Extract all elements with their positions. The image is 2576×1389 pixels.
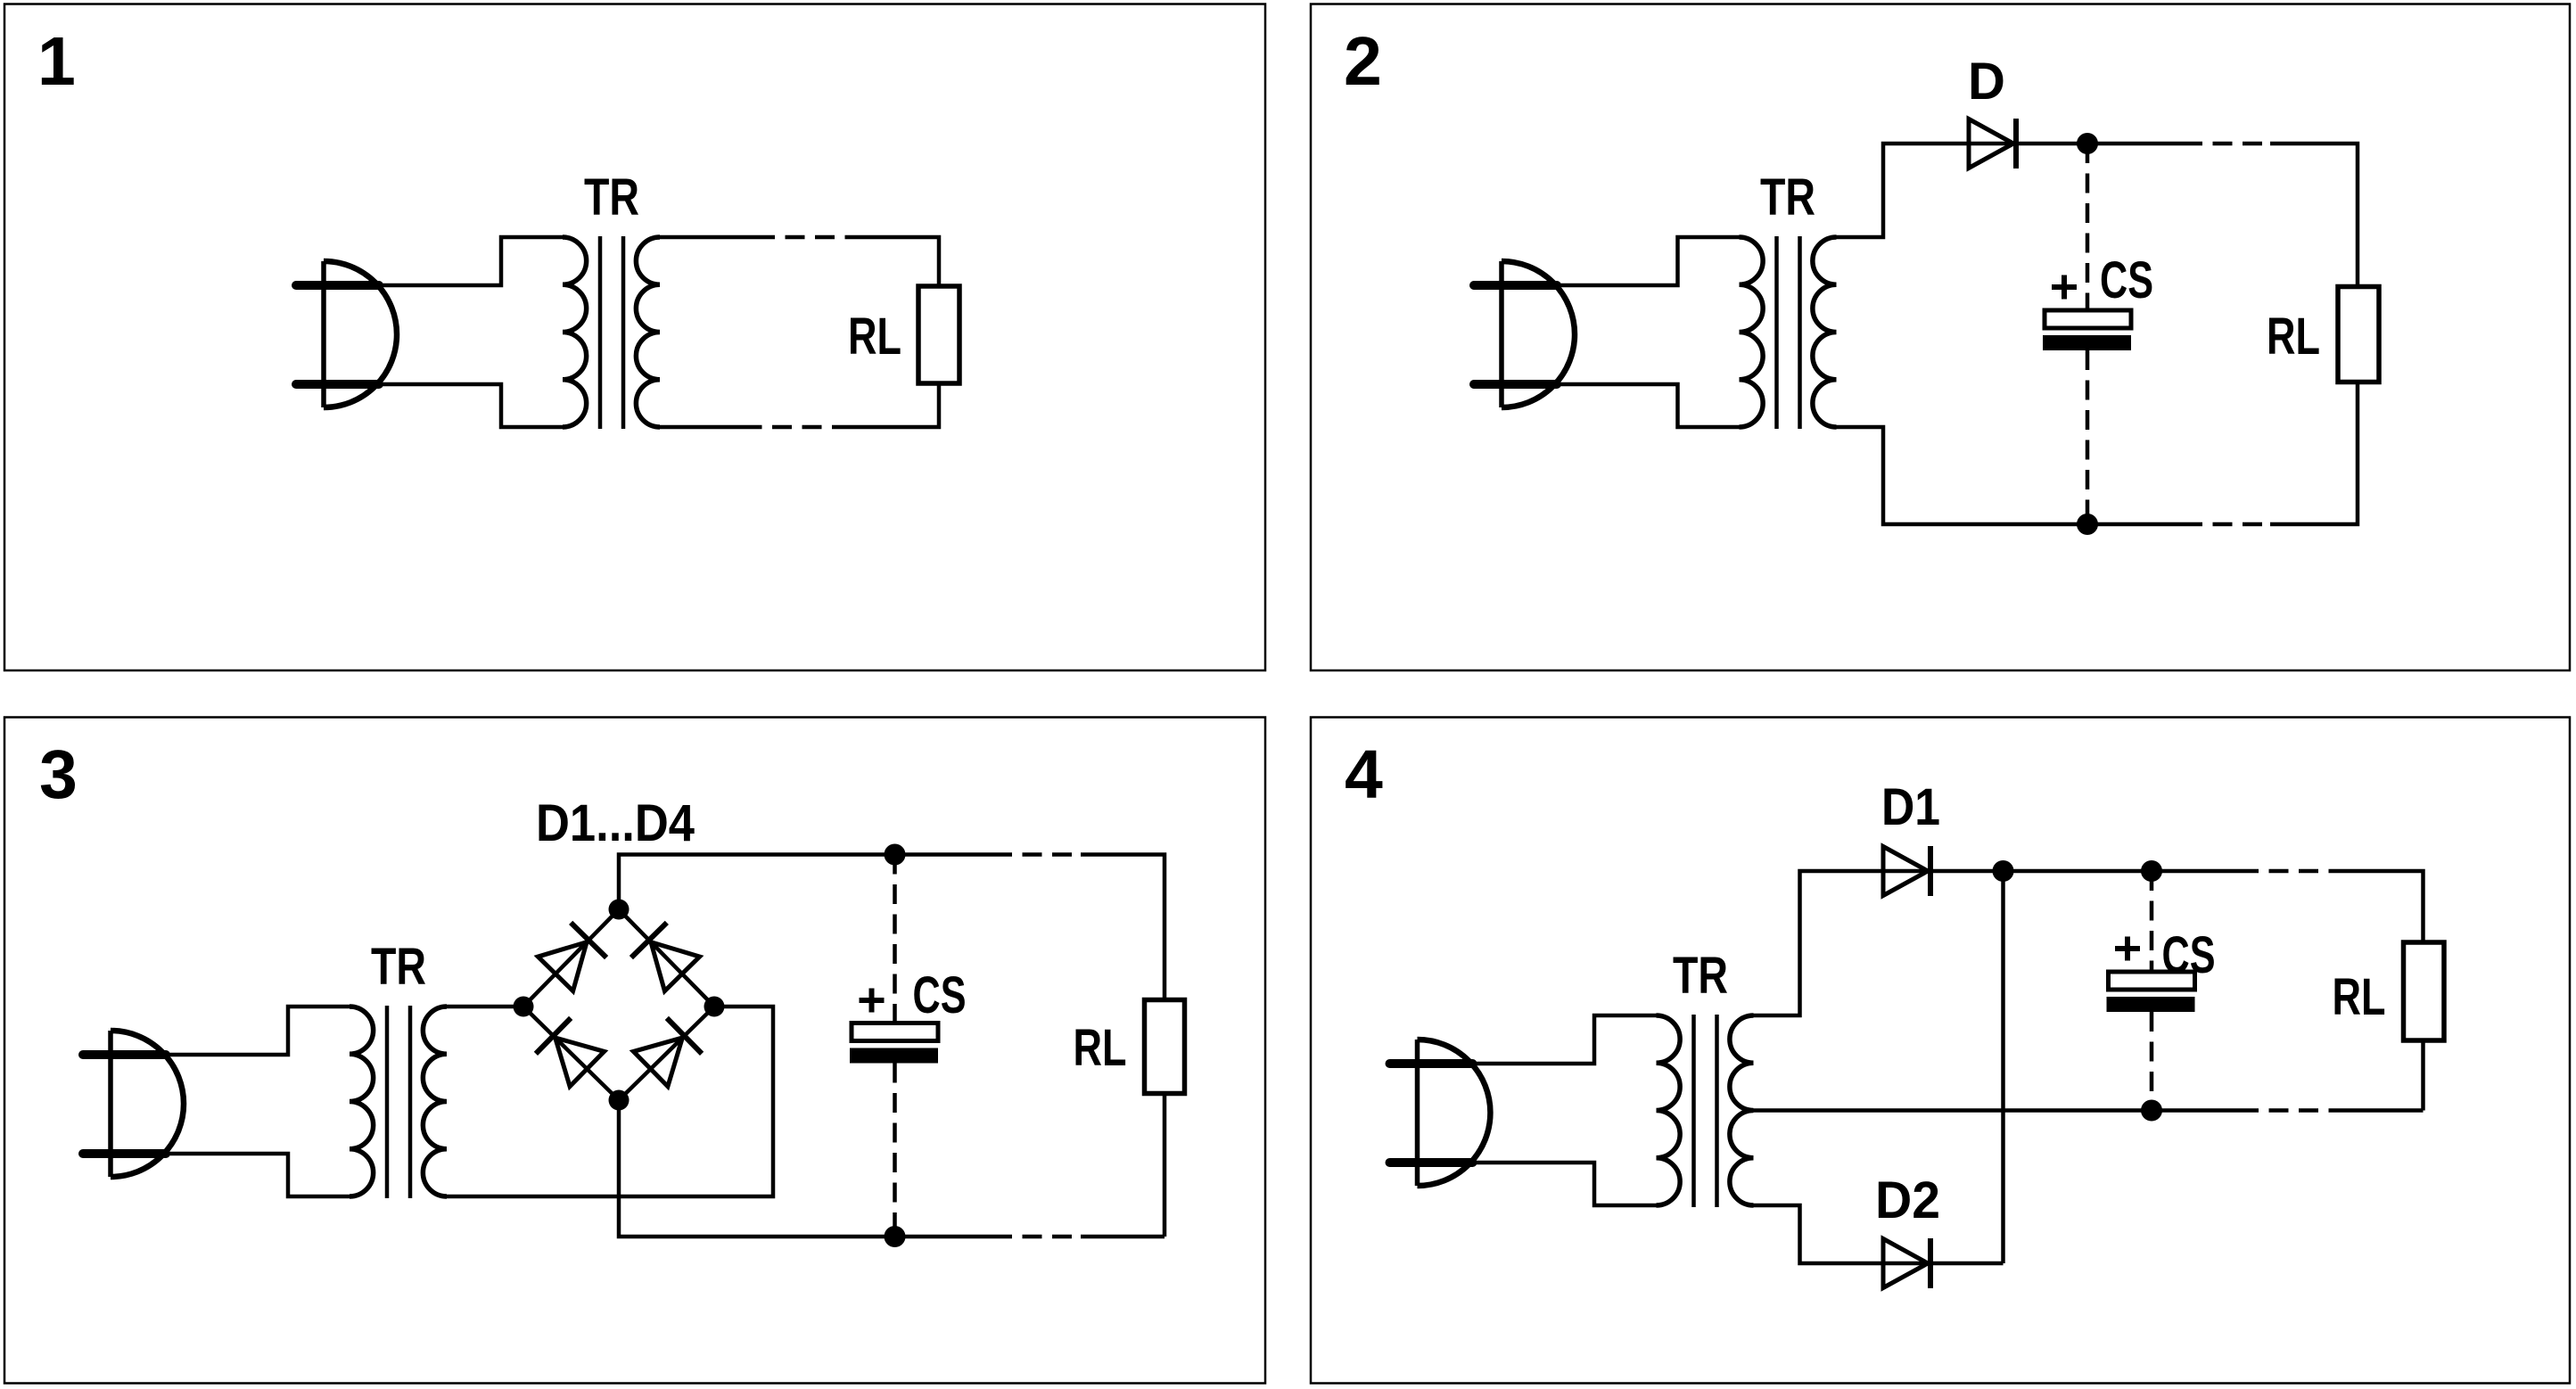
svg-text:RL: RL [2267,308,2320,366]
bridge lower edges wire [523,1007,714,1100]
bridge node dot right [704,997,725,1017]
svg-text:TR: TR [371,938,426,996]
wire diodes junction vertical [2001,871,2005,1263]
plug P1 mains plug body [324,261,397,407]
transformer TR primary winding [563,237,587,427]
node dot minus rail panel 3 [885,1226,906,1247]
svg-text:D: D [1968,53,2005,111]
svg-text:4: 4 [1345,736,1383,813]
wire secondary top solid [660,235,755,240]
wire bottom to resistor RL panel 2 [2270,382,2358,525]
panel 3 frame [4,718,1265,1384]
capacitor CS top plate panel 4 [2109,972,2195,990]
bridge node dot left [514,997,534,1017]
svg-text:2: 2 [1344,23,1382,100]
svg-text:3: 3 [39,736,78,813]
wire resistor RL bottom panel 3 [1163,1094,1167,1237]
svg-text:CS: CS [913,966,967,1024]
transformer TR primary winding panel 2 [1740,237,1764,427]
resistor RL panel 4 [2404,942,2445,1040]
transformer TR core panel 2 [1777,236,1800,429]
plug P1 prong top [296,281,379,290]
svg-text:1: 1 [37,23,76,100]
transformer TR secondary winding panel 4 [1730,1015,1754,1205]
wire secondary bottom rail panel 2 [1837,427,2184,524]
transformer TR primary winding panel 3 [350,1007,374,1196]
svg-text:CS: CS [2100,251,2153,309]
wire bridge bottom node to minus rail [619,1100,992,1237]
node dot top panel 2 [2077,133,2098,154]
bridge node dot bottom [609,1090,630,1111]
wire secondary bottom dashed [755,425,852,430]
wire secondary top dashed [755,235,852,240]
wire plug to TR primary bottom [378,384,563,427]
wire bridge right node to secondary bottom [447,1007,773,1196]
wire secondary bottom to diode D2 row [1754,1205,2004,1263]
transformer TR core [600,236,623,429]
wire center tap rail panel 4 [1754,1108,2240,1113]
wire secondary top to diode D row [1837,144,2184,237]
transformer TR core panel 3 [387,1006,410,1198]
wire plug to TR primary top panel 3 [165,1007,350,1055]
diode D [1969,119,2016,168]
svg-text:D2: D2 [1875,1171,1940,1229]
wire secondary bottom solid [660,425,755,430]
capacitor CS bottom plate panel 3 [850,1048,938,1064]
transformer TR secondary winding panel 3 [423,1007,447,1196]
panel 2 frame [1311,4,2570,671]
wire center rail dashed panel 4 [2239,1108,2331,1113]
wire top to resistor RL panel 4 [2331,871,2424,942]
svg-text:TR: TR [1673,947,1728,1005]
wire plus rail dashed panel 3 [992,852,1081,857]
svg-text:D1: D1 [1881,778,1940,836]
capacitor CS top dashed lead panel 4 [2150,871,2154,972]
wire plug to TR primary bottom panel 3 [165,1154,350,1196]
capacitor CS bottom dashed lead panel 4 [2150,1012,2154,1111]
plug P3 prong top [83,1050,166,1059]
wire top dashed panel 4 [2239,869,2331,874]
bridge diode D1 upper left [538,923,606,991]
capacitor CS top dashed lead panel 2 [2086,144,2090,310]
panel 1 frame [4,4,1265,671]
plug P2 prong top [1474,281,1557,290]
bridge upper edges wire [523,909,714,1007]
plug P2 prong bottom [1474,380,1557,389]
wire secondary top to bridge left node [447,1005,523,1009]
node dot CS top panel 4 [2141,860,2162,882]
wire plus rail to resistor RL panel 3 [1081,855,1165,1000]
wire resistor RL bottom panel 4 [2421,1040,2425,1111]
bridge diode D4 lower right [633,1018,702,1087]
panel 4 frame [1311,718,2570,1384]
capacitor CS plus sign panel 2 [2052,275,2077,300]
capacitor CS plus sign panel 4 [2115,937,2140,961]
wire plug to TR primary bottom panel 2 [1556,384,1740,427]
node dot bottom panel 2 [2077,514,2098,535]
wire top dashed panel 2 [2183,142,2270,146]
plug P4 prong top [1390,1059,1473,1068]
svg-text:RL: RL [848,308,901,366]
node dot D1 cathode junction [1993,860,2014,882]
svg-text:TR: TR [1760,168,1815,226]
transformer TR secondary winding panel 2 [1813,237,1837,427]
wire center rail to resistor RL panel 4 [2331,1108,2424,1113]
wire resistor RL bottom to secondary [852,383,939,427]
plug P4 mains plug body [1418,1040,1491,1186]
svg-text:TR: TR [584,168,639,226]
wire secondary top to diode D1 row [1754,871,2240,1015]
plug P2 mains plug body [1502,261,1575,407]
node dot center rail panel 4 [2141,1100,2162,1122]
resistor RL panel 1 [918,286,959,383]
capacitor CS bottom dashed lead panel 2 [2086,350,2090,524]
capacitor CS top plate panel 3 [852,1023,938,1041]
wire minus rail to resistor RL panel 3 [1081,1235,1165,1239]
transformer TR secondary winding [636,237,660,427]
resistor RL panel 3 [1145,1000,1185,1094]
capacitor CS plus sign panel 3 [860,989,885,1013]
transformer TR core panel 4 [1694,1015,1717,1207]
svg-text:D1...D4: D1...D4 [536,794,695,852]
capacitor CS top plate panel 2 [2045,310,2131,328]
wire plug to TR primary top [378,237,563,285]
bridge diode D3 lower left [536,1018,605,1087]
capacitor CS top dashed lead panel 3 [893,855,897,1023]
wire plug to TR primary top panel 4 [1472,1015,1657,1064]
resistor RL panel 2 [2338,287,2379,382]
plug P3 mains plug body [111,1031,184,1177]
bridge diode D2 upper right [631,923,700,991]
wire top to resistor RL [852,237,939,286]
capacitor CS bottom dashed lead panel 3 [893,1064,897,1237]
node dot plus rail panel 3 [885,844,906,866]
svg-text:RL: RL [2333,968,2386,1026]
transformer TR primary winding panel 4 [1657,1015,1681,1205]
wire minus rail dashed panel 3 [992,1235,1081,1239]
wire bridge top node to plus rail [619,855,992,910]
capacitor CS bottom plate panel 2 [2043,335,2131,350]
wire top to resistor RL panel 2 [2270,144,2358,287]
plug P3 prong bottom [83,1149,166,1158]
wire plug to TR primary bottom panel 4 [1472,1163,1657,1205]
plug P1 prong bottom [296,380,379,389]
capacitor CS bottom plate panel 4 [2107,997,2195,1012]
plug P4 prong bottom [1390,1158,1473,1167]
diode D1 [1883,846,1930,896]
wire plug to TR primary top panel 2 [1556,237,1740,285]
wire bottom dashed panel 2 [2183,522,2270,527]
bridge node dot top [609,900,630,920]
svg-text:RL: RL [1074,1019,1127,1077]
diode D2 [1883,1238,1930,1288]
